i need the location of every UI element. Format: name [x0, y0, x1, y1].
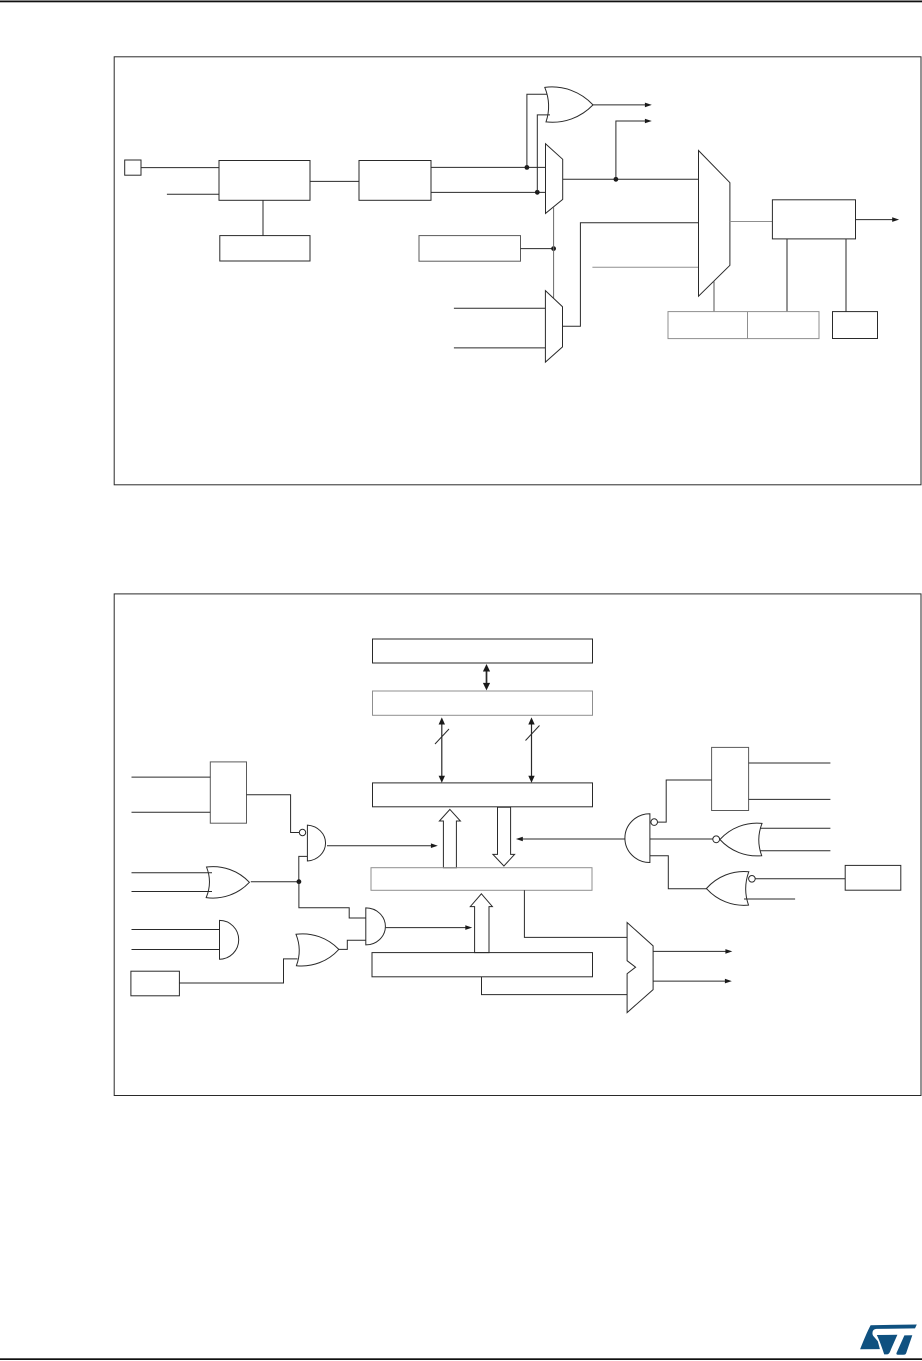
input pad P1	[125, 160, 141, 175]
wire input N1 a	[760, 827, 830, 829]
arrow output B6	[856, 219, 895, 221]
header rule	[0, 1, 922, 3]
wire G3 output to G6 lower input	[339, 940, 366, 949]
wire output T2 b	[749, 798, 831, 800]
and-gate G5 left-facing	[625, 814, 650, 863]
box C	[373, 783, 593, 807]
nor-gate N1 left-facing	[720, 823, 762, 856]
and-gate G7	[220, 920, 239, 959]
wire D to mux M4	[524, 890, 627, 937]
footer rule	[0, 1358, 922, 1360]
wire M2 output to B6	[730, 221, 773, 223]
bus arrow left B-C	[441, 722, 443, 779]
arrow from G5 into down arrow	[521, 838, 625, 840]
bubble N2	[749, 876, 756, 883]
wire B10 to N2 bubble	[755, 878, 845, 880]
figure 1 frame	[114, 57, 921, 485]
wire T2 to G5 bubble	[658, 780, 712, 822]
wire M1 to mux M3	[553, 207, 555, 298]
wire E to mux M4	[482, 977, 628, 995]
block arrow up E	[470, 894, 492, 953]
wire input T1 b	[132, 811, 211, 813]
junction dot	[614, 177, 619, 182]
wire T1 to G4 bubble	[247, 795, 300, 833]
wire input G2 b	[132, 891, 213, 893]
bus slash left	[435, 729, 449, 744]
wire B6 to B7	[786, 239, 788, 312]
junction dot	[525, 165, 530, 170]
wire N2 lower input stub	[744, 898, 795, 900]
arrow output G1	[593, 104, 647, 106]
wire input a of M3	[454, 307, 546, 309]
wire output T2 a	[749, 762, 831, 764]
mux M2	[699, 151, 730, 297]
wire B6 to B8	[845, 239, 847, 312]
or-gate G1	[545, 87, 593, 122]
wire B2 upper to mux M1	[431, 166, 546, 168]
inverter bubble G4	[299, 829, 305, 835]
wire B2 lower to mux M1	[431, 191, 546, 193]
mux M1	[546, 144, 563, 214]
and-gate G4	[307, 825, 325, 861]
wire P1 to B1	[141, 167, 219, 169]
wire input G7 a	[132, 929, 220, 931]
box B4	[419, 236, 521, 262]
box B10 small right	[845, 865, 901, 890]
wire NOR N1 output to G5	[650, 838, 713, 840]
wire M2 to B7	[713, 281, 715, 312]
mux M4	[627, 923, 653, 1013]
box B	[373, 691, 593, 715]
box D	[371, 868, 592, 891]
wire input b of M3	[454, 347, 546, 349]
wire M3 output to M2	[563, 223, 699, 326]
wire to G1 input 2	[537, 115, 550, 192]
mux M3	[545, 291, 562, 363]
wire B1 to B2	[310, 180, 359, 182]
arrow M4 output a	[653, 950, 727, 952]
box B9 bottom left	[131, 971, 180, 996]
arrow M4 output b	[653, 980, 726, 982]
box B8	[833, 312, 878, 339]
junction dot	[297, 879, 302, 884]
inverter bubble G5	[651, 819, 658, 826]
box B3	[220, 236, 310, 261]
box T1 tall left	[210, 762, 246, 823]
arrow from G6 into up arrow E	[386, 927, 467, 929]
box T2 tall right	[712, 747, 749, 810]
nor-gate N2 left-facing	[706, 871, 748, 905]
wire input G2 a	[132, 872, 213, 874]
wire G2 output to node	[251, 881, 299, 883]
wire grey into M2	[592, 266, 698, 268]
wire to G1 input 1	[527, 94, 548, 167]
bubble N1	[713, 836, 720, 843]
wire G4 lower input	[299, 856, 308, 881]
or-gate G3	[296, 934, 339, 966]
bidirectional arrow A-B	[486, 668, 488, 687]
junction dot	[535, 190, 540, 195]
wire input G7 b	[132, 949, 220, 951]
box B2	[359, 161, 431, 201]
wire node to G6 upper input	[299, 882, 366, 918]
box B1	[219, 161, 310, 201]
box B6	[772, 200, 855, 239]
wire input T1 a	[132, 776, 211, 778]
bus arrow right B-C	[531, 722, 533, 779]
wire B9 to G3 input	[179, 959, 297, 983]
block arrow down C	[493, 807, 515, 866]
box E	[372, 953, 593, 977]
junction dot	[551, 246, 556, 251]
and-gate G6	[366, 908, 386, 945]
block arrow up C	[439, 809, 460, 867]
figure 2 frame	[114, 594, 921, 1096]
box B7	[668, 312, 819, 339]
box B7 divider	[747, 312, 749, 339]
box A	[373, 639, 593, 663]
wire G5 lower input to N2 output	[650, 856, 707, 889]
wire stub into B1	[167, 193, 219, 195]
wire input N1 b	[760, 850, 830, 852]
arrow from G4 into up arrow	[327, 845, 433, 847]
bus slash right	[526, 726, 540, 741]
wire M1 output to mux M2	[563, 178, 699, 180]
wire B4 to node	[521, 248, 554, 250]
or-gate G2	[206, 867, 249, 898]
ST logo	[860, 1325, 917, 1355]
arrow tap upward	[616, 121, 647, 179]
wire B1 to B3	[262, 200, 264, 235]
